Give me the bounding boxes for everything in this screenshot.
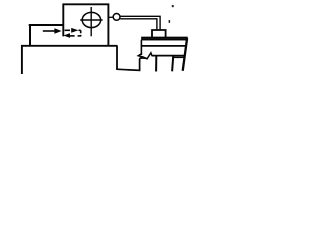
dashed corner vertical: [80, 30, 82, 36]
bed mid line: [152, 55, 185, 57]
dashed traverse upper head: [71, 28, 78, 33]
bed shelf line: [172, 56, 184, 58]
speck node B: [169, 20, 171, 23]
break zigzag: [138, 53, 152, 59]
machine column left edge: [29, 24, 31, 46]
base long top line: [22, 46, 118, 74]
bed top line: [141, 45, 187, 47]
table: [142, 37, 187, 39]
pulley connector: [109, 16, 114, 18]
base box bottom and hook: [116, 58, 146, 71]
dashed traverse lower dash 1: [78, 35, 81, 37]
dashed traverse lower head: [63, 33, 70, 38]
belt upper wire: [120, 16, 160, 30]
base box left edge: [116, 46, 118, 70]
feed arrow shaft: [43, 30, 56, 32]
motor pedestal: [152, 30, 166, 37]
belt lower wire: [120, 19, 157, 30]
pulley circle: [113, 14, 120, 21]
dashed traverse upper dash: [65, 29, 70, 31]
crosshair horizontal: [80, 19, 102, 21]
spindle head box: [63, 4, 108, 45]
dashed traverse upper dash 2: [79, 29, 81, 31]
machine column top edge: [29, 24, 64, 26]
machine right edge: [183, 38, 187, 71]
crosshair vertical: [90, 7, 92, 36]
speck node A: [172, 5, 174, 7]
bed left edge: [140, 40, 142, 55]
bed leg 1: [155, 56, 157, 71]
feed arrow head: [54, 28, 61, 34]
wheel circle U1: [82, 12, 100, 27]
dashed traverse lower dash 2: [70, 35, 75, 37]
bed leg 2: [172, 56, 173, 71]
